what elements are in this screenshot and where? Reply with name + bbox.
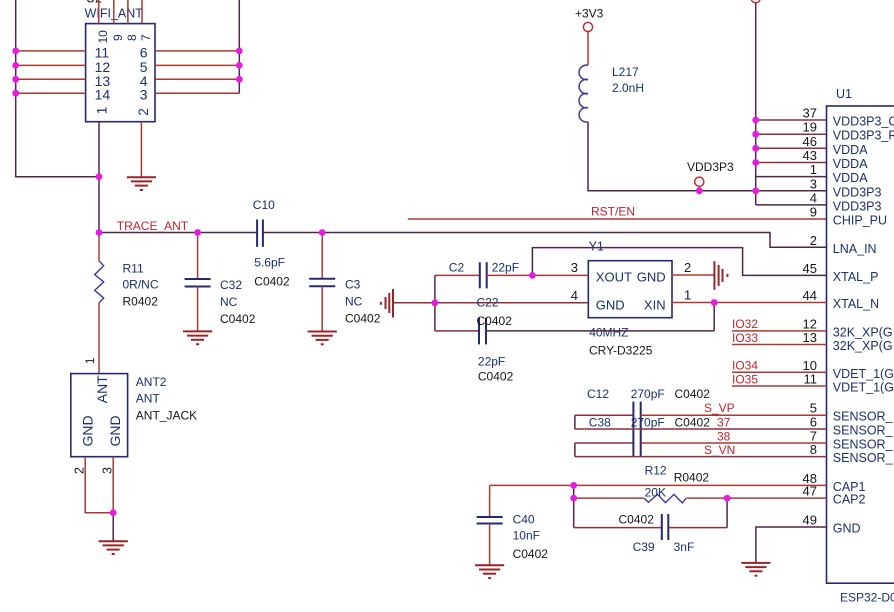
pin numbers 6-3 right xyxy=(140,44,148,102)
svg-text:LNA_IN: LNA_IN xyxy=(833,242,877,256)
wire C12 to pin5 xyxy=(641,414,827,416)
ground under module pin2 xyxy=(127,177,156,190)
svg-text:22pF: 22pF xyxy=(492,261,519,275)
svg-text:C0402: C0402 xyxy=(220,312,256,326)
svg-text:4: 4 xyxy=(810,190,817,205)
svg-text:RST/EN: RST/EN xyxy=(591,205,635,219)
wire L217 to VDD rail xyxy=(588,122,827,191)
wire U1 pin5 SENSOR_VP xyxy=(575,414,634,416)
svg-text:C0402: C0402 xyxy=(619,513,655,527)
svg-text:GND: GND xyxy=(80,415,96,446)
svg-text:2: 2 xyxy=(810,233,817,248)
svg-text:S_VN: S_VN xyxy=(704,443,735,457)
svg-text:VDD3P3: VDD3P3 xyxy=(833,199,882,213)
wire pin9 top xyxy=(113,0,115,24)
power symbol top circle xyxy=(751,0,760,3)
ground under ANT2 xyxy=(99,541,128,554)
svg-text:C39: C39 xyxy=(633,540,655,554)
pin number 7 xyxy=(139,34,153,41)
wire Y1 pin2 xyxy=(672,274,715,276)
svg-text:7: 7 xyxy=(139,34,153,41)
svg-text:22pF: 22pF xyxy=(478,354,505,368)
svg-text:3: 3 xyxy=(140,87,148,103)
svg-text:C0402: C0402 xyxy=(254,275,290,289)
wire sideways ground to junction xyxy=(393,302,435,304)
svg-text:C2: C2 xyxy=(449,261,465,275)
svg-text:C3: C3 xyxy=(345,278,361,292)
U1 pin numbers xyxy=(803,106,817,528)
svg-text:4: 4 xyxy=(571,288,578,303)
wire pin7 top xyxy=(141,0,143,24)
svg-text:C10: C10 xyxy=(253,198,275,212)
sideways ground right of Y1 pin2 xyxy=(714,261,727,290)
svg-text:38: 38 xyxy=(717,430,731,444)
sideways ground left of C22 xyxy=(381,289,393,318)
pin number 8 xyxy=(125,34,139,41)
svg-text:270pF: 270pF xyxy=(631,387,665,401)
svg-text:TRACE_ANT: TRACE_ANT xyxy=(117,219,189,233)
wire TRACE_ANT xyxy=(99,232,257,234)
svg-text:VDD3P3_C: VDD3P3_C xyxy=(833,115,894,129)
ground under C32 xyxy=(183,331,212,344)
capacitor C2 xyxy=(435,261,533,289)
svg-text:ESP32-D0: ESP32-D0 xyxy=(840,591,894,605)
capacitor C40 xyxy=(477,485,549,565)
svg-text:VDDA: VDDA xyxy=(833,143,868,157)
wire pin6 xyxy=(155,50,239,52)
ANT2 pin number 2 xyxy=(72,467,86,474)
svg-text:C0402: C0402 xyxy=(477,314,513,328)
svg-text:CRY-D3225: CRY-D3225 xyxy=(589,344,653,358)
inductor L217 xyxy=(579,65,644,122)
capacitor C12 plates xyxy=(633,402,640,429)
vertical connector C39 right xyxy=(726,498,728,527)
svg-text:IO33: IO33 xyxy=(732,331,758,345)
ANT2 pin number 3 xyxy=(100,467,114,474)
net label IO33 xyxy=(732,331,827,345)
svg-text:14: 14 xyxy=(95,87,111,103)
wire pin3 xyxy=(155,92,239,94)
svg-text:NC: NC xyxy=(345,295,363,309)
wire U1 pin4 xyxy=(756,204,827,206)
svg-text:VDDA: VDDA xyxy=(833,171,868,185)
wire U1 pin7 xyxy=(575,442,634,444)
svg-text:10nF: 10nF xyxy=(513,529,540,543)
ground under pin49 xyxy=(741,563,770,576)
svg-text:VDET_1(G: VDET_1(G xyxy=(833,367,894,381)
wire module pin1 down xyxy=(98,122,100,233)
capacitor C38 labels xyxy=(589,416,710,430)
svg-text:44: 44 xyxy=(803,288,817,303)
svg-text:10: 10 xyxy=(96,30,110,44)
svg-text:+3V3: +3V3 xyxy=(575,7,604,21)
svg-text:XTAL_P: XTAL_P xyxy=(833,270,879,284)
svg-text:2.0nH: 2.0nH xyxy=(612,81,644,95)
U1 pin names xyxy=(833,115,894,536)
svg-text:SENSOR_: SENSOR_ xyxy=(833,451,894,465)
wire U1 pin37 xyxy=(756,119,827,121)
crystal Y1 box xyxy=(588,240,672,358)
resistor R12 xyxy=(574,464,827,503)
IC U1 box xyxy=(827,87,894,605)
vertical connector pins5-6 xyxy=(574,415,576,429)
wire ANT2 gnd down xyxy=(112,513,114,542)
svg-text:13: 13 xyxy=(803,330,817,345)
antenna module U2 (WIFI_ANT) xyxy=(85,0,155,122)
wire ANT2 pin3 xyxy=(112,457,114,513)
capacitor C32 xyxy=(185,233,256,332)
svg-text:32K_XP(G: 32K_XP(G xyxy=(833,325,893,339)
wire pin4 xyxy=(155,78,239,80)
svg-text:43: 43 xyxy=(803,148,817,163)
wire module pin2 down xyxy=(140,122,142,178)
svg-text:SENSOR_: SENSOR_ xyxy=(833,410,894,424)
wire pin5 xyxy=(155,64,239,66)
svg-text:49: 49 xyxy=(803,513,817,528)
svg-text:6: 6 xyxy=(810,415,817,430)
svg-text:2: 2 xyxy=(684,260,691,275)
wire U1 pin1 xyxy=(756,176,827,178)
net label IO35 xyxy=(732,373,827,387)
left bus wire xyxy=(16,0,99,177)
capacitor C22 xyxy=(435,296,714,384)
wire pin10 top xyxy=(98,0,100,24)
svg-text:C0402: C0402 xyxy=(345,312,381,326)
wire ANT2 pin2 xyxy=(85,457,113,513)
ground under C3 xyxy=(308,332,337,345)
svg-text:GND: GND xyxy=(637,270,666,285)
svg-text:9: 9 xyxy=(111,34,125,41)
pin number 1 bottom xyxy=(94,107,109,115)
wire pin8 top xyxy=(127,0,129,24)
wire pin11 xyxy=(16,50,86,52)
wire U1 pin43 xyxy=(756,162,827,164)
svg-text:R0402: R0402 xyxy=(674,471,710,485)
svg-text:1: 1 xyxy=(810,162,817,177)
power symbol +3V3 xyxy=(575,7,604,66)
wire U1 pin19 xyxy=(756,133,827,135)
svg-text:R12: R12 xyxy=(645,464,667,478)
svg-text:GND: GND xyxy=(833,522,861,536)
svg-text:SENSOR_: SENSOR_ xyxy=(833,438,894,452)
capacitor C10 xyxy=(253,198,290,289)
svg-text:1: 1 xyxy=(94,107,109,115)
svg-text:XIN: XIN xyxy=(644,298,666,313)
svg-text:C12: C12 xyxy=(587,387,609,401)
svg-text:ANT: ANT xyxy=(94,375,110,403)
wire C2 left vertical xyxy=(434,275,436,331)
wire U1 pin6 xyxy=(575,428,827,430)
svg-text:VDD3P3: VDD3P3 xyxy=(833,185,882,199)
wire pin14 xyxy=(16,92,86,94)
svg-text:C32: C32 xyxy=(220,278,242,292)
wire C38 to pin7 xyxy=(641,442,827,444)
svg-text:2: 2 xyxy=(72,467,86,474)
power symbol VDD3P3 xyxy=(687,160,734,191)
ground under C40 xyxy=(475,565,504,578)
wire U1 pin48 CAP1 xyxy=(490,484,827,486)
vertical connector pins7-8 xyxy=(574,443,576,457)
right bus wire xyxy=(238,0,240,93)
svg-text:S_VP: S_VP xyxy=(704,401,735,415)
svg-text:270pF: 270pF xyxy=(631,416,665,430)
svg-text:1: 1 xyxy=(85,358,97,364)
svg-text:8: 8 xyxy=(810,442,817,457)
svg-text:40MHZ: 40MHZ xyxy=(589,325,628,339)
svg-text:46: 46 xyxy=(803,134,817,149)
svg-text:37: 37 xyxy=(803,106,817,121)
svg-text:11: 11 xyxy=(804,372,818,387)
svg-text:IO35: IO35 xyxy=(732,373,758,387)
svg-text:5.6pF: 5.6pF xyxy=(254,256,285,270)
svg-text:U1: U1 xyxy=(836,87,852,101)
svg-text:C0402: C0402 xyxy=(675,387,711,401)
svg-text:C0402: C0402 xyxy=(675,416,711,430)
svg-text:GND: GND xyxy=(107,415,123,446)
svg-text:C38: C38 xyxy=(589,416,611,430)
capacitor C38 plates xyxy=(633,430,640,457)
svg-text:ANT: ANT xyxy=(136,392,161,406)
svg-text:3: 3 xyxy=(571,260,578,275)
resistor R11 xyxy=(95,233,159,374)
svg-text:3nF: 3nF xyxy=(674,540,695,554)
wire U1 pin8 SENSOR_VN xyxy=(575,456,827,458)
svg-text:C0402: C0402 xyxy=(513,547,549,561)
pin number 2 bottom xyxy=(136,108,151,116)
wire TRACE_ANT to LNA_IN xyxy=(263,233,827,248)
svg-text:CHIP_PU: CHIP_PU xyxy=(833,214,887,228)
svg-text:R11: R11 xyxy=(123,262,144,276)
svg-text:0R/NC: 0R/NC xyxy=(123,278,159,292)
capacitor C12 labels xyxy=(587,387,710,401)
svg-text:XOUT: XOUT xyxy=(596,270,632,285)
svg-text:20K: 20K xyxy=(645,486,666,500)
capacitor C3 xyxy=(309,233,380,332)
ANT2 pin number 1 xyxy=(85,358,97,364)
wire pin12 xyxy=(16,64,86,66)
vertical connector CAP1-CAP2 xyxy=(573,485,575,527)
svg-text:IO34: IO34 xyxy=(732,359,758,373)
wire XIN junction vertical xyxy=(713,303,715,331)
svg-text:37: 37 xyxy=(717,416,731,430)
svg-text:2: 2 xyxy=(136,108,151,116)
svg-text:VDDA: VDDA xyxy=(833,157,868,171)
pin number 10 xyxy=(96,30,110,44)
Y1 pin numbers xyxy=(571,260,691,303)
svg-text:8: 8 xyxy=(125,34,139,41)
wire RST/EN to CHIP_PU xyxy=(408,218,827,220)
net label IO32 xyxy=(732,317,827,331)
svg-text:32K_XP(G: 32K_XP(G xyxy=(833,339,893,353)
antenna jack ANT2 xyxy=(71,374,197,457)
wire Y1 pin3 xyxy=(532,274,588,276)
svg-text:C0402: C0402 xyxy=(478,369,514,383)
VDD bus vertical wire xyxy=(755,3,757,205)
svg-text:1: 1 xyxy=(684,287,691,302)
svg-text:C22: C22 xyxy=(477,296,499,310)
svg-text:VDET_1(G: VDET_1(G xyxy=(833,381,894,395)
capacitor C39 xyxy=(574,513,727,555)
pin number 9 xyxy=(111,34,125,41)
svg-text:9: 9 xyxy=(810,205,817,220)
wire U1 pin49 GND xyxy=(756,527,827,563)
svg-text:19: 19 xyxy=(803,120,817,135)
wire U1 pin46 xyxy=(756,147,827,149)
wire XOUT up to XTAL_P xyxy=(532,248,826,276)
svg-text:VDD3P3_R: VDD3P3_R xyxy=(833,129,894,143)
svg-text:Y1: Y1 xyxy=(589,240,604,254)
svg-text:CAP2: CAP2 xyxy=(833,493,866,507)
pin numbers 11-14 left xyxy=(95,44,111,102)
svg-text:XTAL_N: XTAL_N xyxy=(833,297,879,311)
svg-text:NC: NC xyxy=(220,295,238,309)
svg-text:GND: GND xyxy=(596,298,625,313)
svg-text:C40: C40 xyxy=(513,513,535,527)
svg-text:R0402: R0402 xyxy=(123,295,159,309)
svg-text:VDD3P3: VDD3P3 xyxy=(687,160,734,174)
svg-text:IO32: IO32 xyxy=(732,317,758,331)
svg-text:3: 3 xyxy=(100,467,114,474)
svg-text:ANT2: ANT2 xyxy=(136,375,167,389)
svg-text:5: 5 xyxy=(810,401,817,416)
wire pin13 xyxy=(16,78,86,80)
svg-text:3: 3 xyxy=(810,176,817,191)
net label IO34 xyxy=(732,359,827,373)
svg-text:ANT_JACK: ANT_JACK xyxy=(136,409,197,423)
svg-text:SENSOR_: SENSOR_ xyxy=(833,424,894,438)
svg-text:U2: U2 xyxy=(86,0,102,6)
svg-text:45: 45 xyxy=(803,261,817,276)
wire Y1 pin4 xyxy=(435,302,588,304)
svg-text:L217: L217 xyxy=(612,65,639,79)
wire Y1 pin1 to XTAL_N xyxy=(672,302,827,304)
